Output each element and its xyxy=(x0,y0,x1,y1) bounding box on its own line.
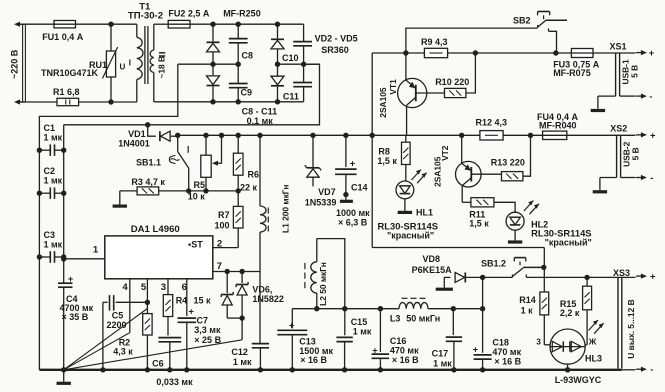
svg-text:R13 220: R13 220 xyxy=(491,158,525,168)
svg-text:+: + xyxy=(68,274,73,284)
svg-text:10 к: 10 к xyxy=(188,191,206,201)
svg-text:5: 5 xyxy=(141,282,147,293)
svg-text:C10: C10 xyxy=(282,53,299,63)
svg-text:R1 6,8: R1 6,8 xyxy=(53,87,80,97)
svg-text:XS1: XS1 xyxy=(610,42,627,52)
svg-text:R10 220: R10 220 xyxy=(435,77,469,87)
svg-text:VT1: VT1 xyxy=(388,79,398,95)
svg-text:C2: C2 xyxy=(44,166,56,176)
svg-text:1 мк: 1 мк xyxy=(44,133,63,143)
svg-text:SR360: SR360 xyxy=(321,45,349,55)
svg-text:L-93WGYC: L-93WGYC xyxy=(555,375,602,385)
svg-text:+: + xyxy=(650,129,656,140)
svg-text:× 16 В: × 16 В xyxy=(300,355,327,365)
svg-text:1 мк: 1 мк xyxy=(44,240,63,250)
svg-text:SB1.2: SB1.2 xyxy=(481,258,506,268)
svg-text:× 35 В: × 35 В xyxy=(62,312,89,322)
svg-text:C17: C17 xyxy=(432,349,449,359)
svg-text:U: U xyxy=(120,63,126,72)
svg-text:-: - xyxy=(649,90,652,101)
svg-text:DA1 L4960: DA1 L4960 xyxy=(131,224,180,235)
svg-text:1 мк: 1 мк xyxy=(433,358,452,368)
svg-text:XS3: XS3 xyxy=(613,268,630,278)
svg-text:ТП-30-2: ТП-30-2 xyxy=(128,10,163,21)
svg-text:1 мк: 1 мк xyxy=(44,176,63,186)
svg-text:L3: L3 xyxy=(390,314,401,324)
svg-text:× 6,3 В: × 6,3 В xyxy=(338,218,368,228)
svg-text:C3: C3 xyxy=(44,230,56,240)
svg-text:5 В: 5 В xyxy=(629,65,639,78)
svg-text:L1 200 мкГн: L1 200 мкГн xyxy=(281,185,291,233)
svg-text:C14: C14 xyxy=(351,183,368,193)
svg-text:~220 В: ~220 В xyxy=(10,49,20,79)
svg-text:4,3 к: 4,3 к xyxy=(113,347,133,357)
svg-text:SB1.1: SB1.1 xyxy=(136,158,161,168)
svg-text:1N5339: 1N5339 xyxy=(305,198,337,208)
svg-text:C15: C15 xyxy=(351,317,368,327)
svg-text:15 к: 15 к xyxy=(194,295,212,305)
svg-text:R7: R7 xyxy=(218,210,230,220)
svg-text:FU2 2,5 А: FU2 2,5 А xyxy=(168,9,210,19)
svg-text:1 к: 1 к xyxy=(521,306,534,316)
svg-text:2: 2 xyxy=(217,238,222,249)
svg-text:P6KE15A: P6KE15A xyxy=(412,265,453,275)
svg-text:R9 4,3: R9 4,3 xyxy=(421,37,448,47)
svg-text:0,033 мк: 0,033 мк xyxy=(156,377,193,387)
svg-text:VD2 - VD5: VD2 - VD5 xyxy=(315,34,358,44)
svg-text:I: I xyxy=(129,59,131,68)
svg-text:C6: C6 xyxy=(152,359,164,369)
svg-text:1 мк: 1 мк xyxy=(353,327,372,337)
svg-text:C11: C11 xyxy=(283,91,299,101)
svg-text:3,3 мк: 3,3 мк xyxy=(194,325,221,335)
svg-text:TNR10G471K: TNR10G471K xyxy=(41,68,99,78)
svg-text:VD8: VD8 xyxy=(423,254,441,264)
svg-text:-: - xyxy=(650,172,653,183)
svg-text:"красный": "красный" xyxy=(387,231,434,241)
svg-text:R12 4,3: R12 4,3 xyxy=(476,118,508,128)
svg-text:R8: R8 xyxy=(378,147,390,157)
svg-text:1N5822: 1N5822 xyxy=(252,294,284,304)
svg-text:MF-R250: MF-R250 xyxy=(223,9,261,19)
svg-text:U вых. 5...12 В: U вых. 5...12 В xyxy=(626,299,636,358)
svg-text:+: + xyxy=(372,345,377,355)
svg-text:22 к: 22 к xyxy=(240,182,258,192)
svg-text:1N4001: 1N4001 xyxy=(118,138,150,148)
svg-text:MF-R075: MF-R075 xyxy=(553,68,591,78)
svg-text:2SA105: 2SA105 xyxy=(378,87,388,118)
svg-text:3: 3 xyxy=(536,337,541,347)
svg-text:~18 В: ~18 В xyxy=(157,56,167,79)
svg-text:C16: C16 xyxy=(390,336,407,346)
svg-text:R4: R4 xyxy=(176,295,188,305)
svg-text:"красный": "красный" xyxy=(545,238,592,248)
svg-text:C1: C1 xyxy=(44,123,56,133)
svg-text:50 мкГн: 50 мкГн xyxy=(406,314,440,324)
svg-text:1,5 к: 1,5 к xyxy=(469,219,489,229)
svg-text:+: + xyxy=(289,320,294,330)
svg-text:C9: C9 xyxy=(241,87,253,97)
svg-text:2200: 2200 xyxy=(107,320,127,330)
svg-text:2SA105: 2SA105 xyxy=(432,156,442,187)
svg-text:7: 7 xyxy=(217,261,222,272)
svg-text:VD6,: VD6, xyxy=(252,284,272,294)
svg-text:1000 мк: 1000 мк xyxy=(336,208,370,218)
svg-text:HL1: HL1 xyxy=(416,207,433,217)
svg-text:HL3: HL3 xyxy=(585,353,602,363)
svg-text:R6: R6 xyxy=(248,170,260,180)
svg-text:× 16 В: × 16 В xyxy=(392,355,419,365)
svg-text:1: 1 xyxy=(93,245,99,256)
svg-text:2,2 к: 2,2 к xyxy=(560,308,580,318)
svg-text:R5: R5 xyxy=(194,180,206,190)
svg-text:+: + xyxy=(473,345,478,355)
svg-text:C8: C8 xyxy=(242,51,254,61)
svg-text:XS2: XS2 xyxy=(610,124,627,134)
svg-text:VD7: VD7 xyxy=(318,187,336,197)
svg-text:C8 - C11: C8 - C11 xyxy=(242,106,278,116)
svg-text:+: + xyxy=(649,47,655,58)
svg-text:4: 4 xyxy=(122,282,128,293)
svg-text:5 В: 5 В xyxy=(630,147,640,160)
svg-text:▪ST: ▪ST xyxy=(188,239,203,249)
svg-text:C5: C5 xyxy=(112,310,124,320)
svg-text:3: 3 xyxy=(161,282,166,293)
svg-text:+: + xyxy=(189,307,194,317)
svg-text:L2 50 мкГн: L2 50 мкГн xyxy=(318,262,328,306)
svg-text:MF-R040: MF-R040 xyxy=(539,121,577,131)
svg-text:1,5 к: 1,5 к xyxy=(377,156,397,166)
svg-text:+: + xyxy=(350,158,356,169)
svg-text:R3 4,7 к: R3 4,7 к xyxy=(131,177,165,187)
svg-text:100: 100 xyxy=(215,221,230,231)
svg-text:0,1 мк: 0,1 мк xyxy=(247,116,274,126)
svg-text:× 16 В: × 16 В xyxy=(494,357,521,367)
svg-text:Ж: Ж xyxy=(588,336,597,346)
svg-text:R14: R14 xyxy=(519,295,536,305)
svg-text:SB2: SB2 xyxy=(513,16,531,26)
svg-text:C12: C12 xyxy=(231,347,248,357)
svg-text:C7: C7 xyxy=(197,315,209,325)
svg-text:1 мк: 1 мк xyxy=(233,357,252,367)
svg-text:+: + xyxy=(650,271,656,282)
svg-text:-: - xyxy=(650,364,653,375)
svg-text:C18: C18 xyxy=(492,338,509,348)
svg-text:FU1 0,4 А: FU1 0,4 А xyxy=(42,32,84,42)
